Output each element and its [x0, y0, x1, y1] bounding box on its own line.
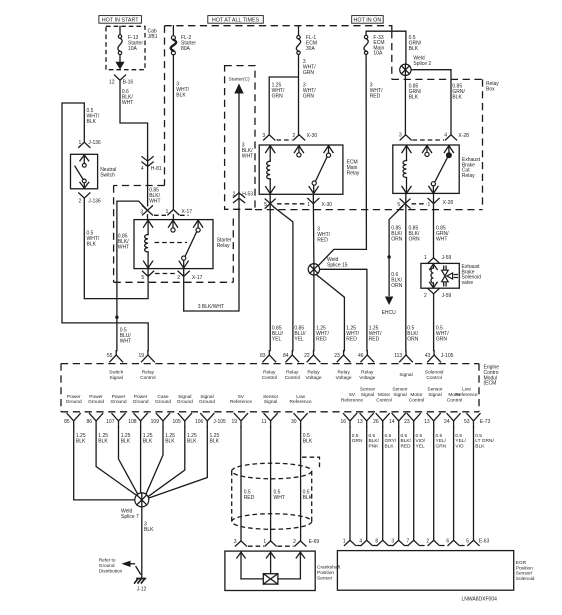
- svg-text:YEL/: YEL/: [455, 438, 466, 444]
- svg-text:RED: RED: [317, 238, 328, 244]
- svg-text:J-59: J-59: [442, 293, 452, 299]
- label 1.25 BLK 3: [121, 433, 131, 445]
- wire X-17 pin3 to relay coil: [147, 215, 149, 220]
- svg-text:Voltage: Voltage: [305, 375, 321, 381]
- svg-text:Power: Power: [67, 394, 81, 400]
- svg-text:GRN: GRN: [303, 70, 315, 76]
- svg-text:0.5: 0.5: [475, 433, 482, 439]
- wire H-81 to X-17 pin3: [147, 157, 149, 206]
- connector E-63 pin 3: [391, 538, 404, 545]
- svg-text:Position: Position: [317, 570, 334, 576]
- svg-text:Solenoid: Solenoid: [425, 370, 444, 376]
- ECM pin 55: [107, 351, 123, 362]
- svg-text:B-16: B-16: [123, 80, 134, 86]
- svg-text:2: 2: [426, 538, 429, 544]
- connector X-30 pin 2: [292, 133, 317, 140]
- svg-text:HOT IN ON: HOT IN ON: [354, 18, 382, 24]
- connector E-63 pin 6: [446, 538, 459, 545]
- label 0.5 YEL/ VIO: [455, 433, 466, 449]
- svg-text:GRN: GRN: [352, 438, 363, 444]
- svg-text:Switch: Switch: [109, 370, 123, 376]
- svg-text:BLK: BLK: [87, 119, 97, 125]
- svg-text:ORN: ORN: [407, 337, 419, 343]
- label 0.5 LT GRN/ BLK: [475, 433, 494, 449]
- svg-text:E-63: E-63: [479, 538, 490, 544]
- connector E-63 pin 5: [466, 538, 479, 545]
- svg-text:3: 3: [399, 133, 402, 139]
- weld splice 15: [308, 257, 348, 275]
- svg-text:5V: 5V: [238, 394, 245, 400]
- boundary dashed starter relay right: [232, 219, 234, 283]
- connector X-30 pin 5: [264, 199, 275, 208]
- svg-text:24: 24: [444, 419, 450, 425]
- ECM pin 23 bottom: [404, 414, 420, 427]
- svg-text:Starter(C): Starter(C): [229, 77, 250, 83]
- connector E-63 pin 4: [359, 538, 372, 545]
- svg-text:valve: valve: [462, 280, 474, 286]
- ECM label Power Ground 118.5: [111, 394, 127, 405]
- svg-text:107: 107: [106, 419, 115, 425]
- svg-text:Relay: Relay: [263, 370, 276, 376]
- svg-text:GRY/: GRY/: [385, 438, 397, 444]
- svg-text:BLK: BLK: [475, 443, 485, 449]
- relay Starter Relay: [134, 220, 232, 269]
- label 1.25 BLK 7: [210, 433, 220, 445]
- relay Exhaust Brake Cut Relay: [393, 145, 481, 193]
- svg-text:5: 5: [466, 538, 469, 544]
- label HOT IN START: [99, 16, 141, 24]
- svg-text:4: 4: [359, 538, 362, 544]
- shield upper ellipse: [232, 463, 312, 479]
- svg-text:Solenoid: Solenoid: [516, 576, 535, 582]
- svg-text:3: 3: [391, 538, 394, 544]
- svg-text:Control: Control: [426, 375, 441, 381]
- svg-text:HOT AT ALL TIMES: HOT AT ALL TIMES: [212, 18, 260, 24]
- svg-text:1: 1: [166, 209, 169, 215]
- svg-text:3 BLK/WHT: 3 BLK/WHT: [198, 304, 224, 310]
- connector X-30 pin 1: [307, 198, 332, 208]
- svg-text:Control: Control: [285, 375, 300, 381]
- svg-text:H-81: H-81: [151, 166, 162, 172]
- wire X-28 pin5 to EHCU: [389, 206, 403, 295]
- svg-text:Reference: Reference: [290, 399, 312, 405]
- svg-text:Low: Low: [296, 394, 305, 400]
- dash E-63 row: [357, 545, 468, 547]
- svg-text:VIO: VIO: [455, 443, 464, 449]
- ECM label Signal 406: [399, 372, 412, 378]
- svg-text:J-136: J-136: [88, 140, 101, 146]
- connector E-63 pin 8: [375, 538, 388, 545]
- svg-text:13: 13: [424, 419, 430, 425]
- svg-text:30A: 30A: [306, 46, 316, 52]
- svg-text:X-17: X-17: [192, 275, 203, 281]
- wire low reference: [300, 427, 302, 541]
- shield lower ellipse: [232, 514, 312, 530]
- connector 12 B-16: [109, 75, 133, 86]
- wire FL-2 to X-17 pin 1: [172, 55, 174, 210]
- svg-text:BLK: BLK: [409, 95, 419, 101]
- svg-text:Position: Position: [516, 565, 533, 571]
- starter arrow: [234, 84, 243, 194]
- svg-text:BLK: BLK: [452, 95, 462, 101]
- svg-text:Relay: Relay: [217, 243, 230, 249]
- ECM pin 30 bottom: [291, 414, 307, 427]
- svg-text:H-53: H-53: [242, 192, 253, 198]
- svg-text:105: 105: [172, 419, 181, 425]
- svg-text:GRN: GRN: [436, 337, 448, 343]
- svg-text:J-105: J-105: [441, 353, 454, 359]
- svg-text:YEL: YEL: [272, 337, 282, 343]
- svg-text:84: 84: [283, 353, 289, 359]
- svg-text:EGR: EGR: [516, 560, 527, 566]
- wire 5V reference: [240, 427, 242, 541]
- connector X-28 pin 1: [428, 198, 454, 208]
- wire splice15 to ECM 22: [313, 275, 315, 351]
- svg-text:Distribution: Distribution: [99, 568, 123, 573]
- svg-text:Switch: Switch: [100, 172, 115, 178]
- ground J-12: [134, 579, 146, 593]
- ECM label Relay Voltage 343.6: [336, 370, 352, 381]
- svg-text:Control: Control: [262, 375, 277, 381]
- svg-text:BLK: BLK: [98, 439, 108, 445]
- svg-text:Ground: Ground: [99, 563, 115, 568]
- svg-text:0.5: 0.5: [401, 433, 408, 439]
- svg-text:GRN: GRN: [272, 94, 284, 100]
- svg-text:16: 16: [340, 419, 346, 425]
- connector X-17 pin 1: [166, 209, 193, 215]
- label 0.5 VIO/ YEL: [416, 433, 426, 449]
- wire switch signal sense: [117, 201, 148, 351]
- svg-text:5: 5: [397, 202, 400, 208]
- svg-text:J-59: J-59: [442, 255, 452, 261]
- svg-text:Splice 2: Splice 2: [413, 61, 431, 67]
- ECM label Solenoid Control 434.1: [425, 370, 444, 381]
- svg-text:1: 1: [428, 202, 431, 208]
- svg-text:19: 19: [231, 419, 237, 425]
- connector J-59 pin 1: [424, 255, 452, 263]
- svg-text:BLK: BLK: [87, 242, 97, 248]
- svg-text:X-30: X-30: [322, 202, 333, 208]
- module EGR Position Sensor Solenoid: [337, 551, 534, 591]
- junction dot EHCU wire: [387, 255, 390, 258]
- svg-text:Sensor/: Sensor/: [516, 571, 533, 577]
- label HOT IN ON: [352, 16, 384, 24]
- svg-text:Relay: Relay: [361, 370, 374, 376]
- ECM label Motor Control 416.5: [409, 392, 424, 403]
- wire ground 86: [96, 427, 137, 495]
- boundary dashed FL-2 left: [164, 26, 166, 186]
- ECM dashed left edge: [60, 364, 62, 412]
- ECM label Sensor Signal 270.6: [263, 394, 279, 405]
- ECM label Signal Ground 184.8: [177, 394, 193, 405]
- ECM pin 109 bottom: [151, 414, 170, 427]
- label 1.25 BLK 1: [76, 433, 86, 445]
- svg-text:2: 2: [79, 198, 82, 204]
- boundary dashed starter relay left: [113, 186, 115, 283]
- svg-text:BLK: BLK: [303, 439, 313, 445]
- svg-text:Refer to: Refer to: [99, 558, 116, 563]
- ECM label Relay Voltage 313.5: [305, 370, 321, 381]
- wire EGR 3: [398, 427, 400, 540]
- svg-text:23: 23: [404, 419, 410, 425]
- svg-text:Sensor: Sensor: [427, 387, 443, 393]
- svg-text:55: 55: [107, 353, 113, 359]
- label 0.5 BLK/ PNK: [369, 433, 380, 449]
- svg-text:3: 3: [140, 209, 143, 215]
- svg-text:Signal: Signal: [264, 399, 277, 405]
- wire J-59 to ECM 43: [433, 294, 435, 351]
- connector X-30 pin 3: [262, 133, 274, 140]
- svg-text:5: 5: [264, 202, 267, 208]
- svg-text:0.5: 0.5: [436, 433, 443, 439]
- label 0.5 YEL/ GRN: [436, 433, 447, 449]
- label 0.5 GRN: [352, 433, 363, 444]
- svg-text:WHT: WHT: [242, 153, 253, 159]
- ECM label Low Reference 300.6: [290, 394, 312, 405]
- connector X-28 pin 3: [399, 133, 411, 141]
- svg-text:X-17: X-17: [182, 209, 193, 215]
- dash X-17 row: [154, 214, 189, 216]
- svg-text:2: 2: [293, 539, 296, 545]
- fuse F-33 ECM Main 10A: [364, 35, 385, 57]
- svg-text:WHT: WHT: [149, 199, 160, 205]
- svg-text:23: 23: [334, 353, 340, 359]
- ECM pin 53 bottom: [464, 414, 480, 427]
- wire splice15 diag to ECM 23: [316, 275, 344, 351]
- svg-text:86: 86: [87, 419, 93, 425]
- starter box Starter(C): [225, 66, 255, 210]
- connector E-69 pin 1: [263, 539, 276, 546]
- svg-text:Signal: Signal: [200, 394, 213, 400]
- dash E-69 row: [248, 545, 294, 547]
- svg-text:E-73: E-73: [480, 419, 491, 425]
- label 1.25 BLK 4: [143, 433, 153, 445]
- wire EGR 4: [366, 427, 368, 540]
- svg-text:2: 2: [233, 192, 236, 198]
- svg-text:Box: Box: [486, 86, 495, 92]
- wire ground 106: [149, 427, 208, 498]
- fuse box Cab J/B1: [106, 26, 158, 69]
- wire X-28 pin5 to ECM 113: [405, 194, 407, 351]
- svg-text:GRN: GRN: [436, 443, 447, 449]
- svg-text:YEL: YEL: [294, 337, 304, 343]
- svg-text:HOT IN START: HOT IN START: [102, 18, 140, 24]
- svg-text:8: 8: [375, 538, 378, 544]
- dash X-28 bottom row: [412, 203, 428, 205]
- svg-text:Sensor: Sensor: [263, 394, 279, 400]
- wire ground 108: [140, 427, 142, 493]
- label 0.5 WHT: [274, 490, 285, 502]
- svg-text:BLK: BLK: [144, 527, 154, 533]
- wire EGR 8: [382, 427, 384, 540]
- ECM pin 22: [304, 351, 320, 362]
- ECM label Power Ground 73.7: [66, 394, 82, 405]
- fuse FL-2 Starter 80A: [171, 26, 197, 55]
- svg-text:PNK: PNK: [369, 443, 380, 449]
- svg-text:Low: Low: [462, 387, 471, 393]
- connector X-28 pin 4: [444, 133, 469, 141]
- ECM label Low Reference 466.5: [455, 387, 477, 398]
- svg-text:Ground: Ground: [133, 399, 149, 405]
- svg-text:Ground: Ground: [66, 399, 82, 405]
- relay ECM Main Relay: [259, 145, 360, 194]
- svg-text:Signal: Signal: [428, 392, 441, 398]
- svg-text:Sensor: Sensor: [392, 387, 408, 393]
- svg-text:109: 109: [151, 419, 160, 425]
- svg-text:11: 11: [261, 419, 266, 425]
- svg-text:1: 1: [307, 202, 310, 208]
- ECM label Power Ground 140.6: [133, 394, 149, 405]
- svg-text:BLK: BLK: [303, 495, 313, 501]
- ECM dashed bottom boundary: [61, 411, 479, 413]
- wire B-16 to H-81: [120, 80, 148, 156]
- svg-text:2: 2: [292, 133, 295, 139]
- svg-text:108: 108: [128, 419, 137, 425]
- svg-text:BLK: BLK: [121, 439, 131, 445]
- svg-text:X-28: X-28: [458, 133, 469, 139]
- svg-text:43: 43: [425, 353, 431, 359]
- svg-text:BLK: BLK: [176, 93, 186, 99]
- solenoid Exhaust Brake Solenoid valve: [421, 263, 481, 288]
- label 0.5 BLK shield: [303, 433, 313, 445]
- connector X-17 pin 3: [140, 206, 152, 216]
- ECM label Relay Voltage 367.3: [359, 370, 375, 381]
- svg-text:4: 4: [141, 166, 144, 172]
- svg-text:1: 1: [424, 255, 427, 261]
- svg-text:Motor: Motor: [410, 392, 423, 398]
- label 1.25 BLK 5: [165, 433, 175, 445]
- label 1.25 BLK 2: [98, 433, 108, 445]
- svg-text:J-105: J-105: [213, 419, 226, 425]
- wire X-30 pin5 to ECM 83: [269, 194, 271, 350]
- dash X-30 bottom row: [277, 203, 306, 205]
- svg-text:BLK: BLK: [76, 439, 86, 445]
- svg-text:Case: Case: [157, 394, 169, 400]
- svg-text:Reference: Reference: [455, 392, 477, 398]
- connector E-69 pin 3: [234, 539, 247, 546]
- connector J-136 pin 2: [79, 193, 102, 204]
- label 0.5 RED: [244, 490, 255, 502]
- svg-text:WHT: WHT: [118, 245, 129, 251]
- svg-text:1: 1: [343, 538, 346, 544]
- dash X-28 row: [413, 139, 445, 141]
- wire relay control branch: [62, 103, 148, 351]
- inline connector 4 H-81: [141, 157, 162, 172]
- fuse FL-1 ECM 30A: [296, 26, 317, 55]
- wire EGR 6: [453, 427, 455, 540]
- ECM pin 107 bottom: [106, 414, 125, 427]
- ECM pin 43: [425, 351, 441, 362]
- ECM label Switch Signal 116.2: [109, 370, 123, 381]
- svg-text:13: 13: [357, 419, 363, 425]
- boundary dashed relay box: [255, 31, 483, 209]
- boundary dashed starter relay bottom: [114, 281, 234, 283]
- svg-text:6: 6: [446, 538, 449, 544]
- svg-text:BLK: BLK: [165, 439, 175, 445]
- svg-text:Voltage: Voltage: [336, 375, 352, 381]
- svg-text:Sensor: Sensor: [360, 387, 376, 393]
- label 0.5 BLK: [303, 490, 313, 502]
- wire X-30 pin1 to splice15: [312, 194, 315, 263]
- svg-text:Signal: Signal: [110, 375, 123, 381]
- svg-text:BLK: BLK: [187, 439, 197, 445]
- shield tab: [302, 457, 320, 467]
- svg-text:Ground: Ground: [155, 399, 171, 405]
- ECM pin 14 bottom: [389, 414, 405, 427]
- svg-text:J-12: J-12: [137, 586, 147, 592]
- ECM pin 106 bottom: [195, 414, 214, 427]
- svg-text:ORN: ORN: [391, 283, 403, 289]
- svg-text:LT GRN/: LT GRN/: [475, 438, 494, 444]
- wire EGR 7: [413, 427, 415, 540]
- ECM pin 23: [334, 351, 350, 362]
- svg-text:10A: 10A: [373, 51, 383, 57]
- ECM pin 16 bottom: [340, 414, 356, 427]
- wire ground 107: [119, 427, 138, 494]
- arrow EHCU: [385, 297, 393, 306]
- ECM pin 113: [394, 351, 412, 362]
- svg-text:X-30: X-30: [307, 133, 318, 139]
- svg-text:1: 1: [79, 140, 82, 146]
- svg-text:0.5: 0.5: [369, 433, 376, 439]
- connector E-63 pin 2: [426, 538, 439, 545]
- svg-text:106: 106: [195, 419, 204, 425]
- ECM label Power Ground 96.1: [88, 394, 104, 405]
- svg-text:RED: RED: [401, 443, 412, 449]
- ECM label 5V Reference 241: [230, 394, 252, 405]
- shield sides: [232, 471, 312, 522]
- ECM dashed right edge: [478, 364, 480, 412]
- svg-text:BLK/: BLK/: [401, 438, 412, 444]
- svg-text:Ground: Ground: [177, 399, 193, 405]
- svg-text:Signal: Signal: [178, 394, 191, 400]
- svg-text:Relay: Relay: [286, 370, 299, 376]
- svg-text:53: 53: [464, 419, 470, 425]
- svg-text:85: 85: [64, 419, 70, 425]
- wire EGR 5: [473, 427, 475, 540]
- wire sensor signal: [270, 427, 272, 541]
- svg-text:3: 3: [234, 539, 237, 545]
- wire EGR 2: [433, 427, 435, 540]
- connector 2 H-53: [233, 192, 254, 203]
- ECM pin 11 bottom: [261, 414, 277, 427]
- svg-text:(ECM: (ECM: [484, 381, 497, 387]
- ECM dashed top boundary: [61, 363, 479, 365]
- wire splice2 to X-28 pin4: [411, 70, 451, 135]
- label 0.5 BLK/ RED: [401, 433, 412, 449]
- svg-text:Motor: Motor: [378, 392, 391, 398]
- svg-text:12: 12: [109, 80, 115, 86]
- weld splice 2: [400, 55, 432, 75]
- svg-text:10A: 10A: [128, 46, 138, 52]
- wire X-17 pin1 to relay: [172, 215, 174, 220]
- svg-text:BLK: BLK: [409, 46, 419, 52]
- svg-text:Reference: Reference: [230, 399, 252, 405]
- switch Neutral Switch: [71, 154, 117, 189]
- svg-text:Sensor: Sensor: [317, 575, 333, 581]
- junction dot sense wire: [115, 316, 118, 319]
- svg-text:5V: 5V: [349, 392, 356, 398]
- connector J-136 pin 1: [79, 140, 102, 147]
- svg-text:J-136: J-136: [88, 198, 101, 204]
- svg-text:YEL/: YEL/: [436, 438, 447, 444]
- wire 0.5 GRN/BLK: [405, 31, 407, 64]
- wire starter relay pin2 out: [183, 269, 185, 311]
- ECM pin 13 bottom: [357, 414, 373, 427]
- ECM label Relay Control 147.9: [140, 370, 155, 381]
- svg-text:7: 7: [406, 538, 409, 544]
- svg-text:RED: RED: [369, 337, 380, 343]
